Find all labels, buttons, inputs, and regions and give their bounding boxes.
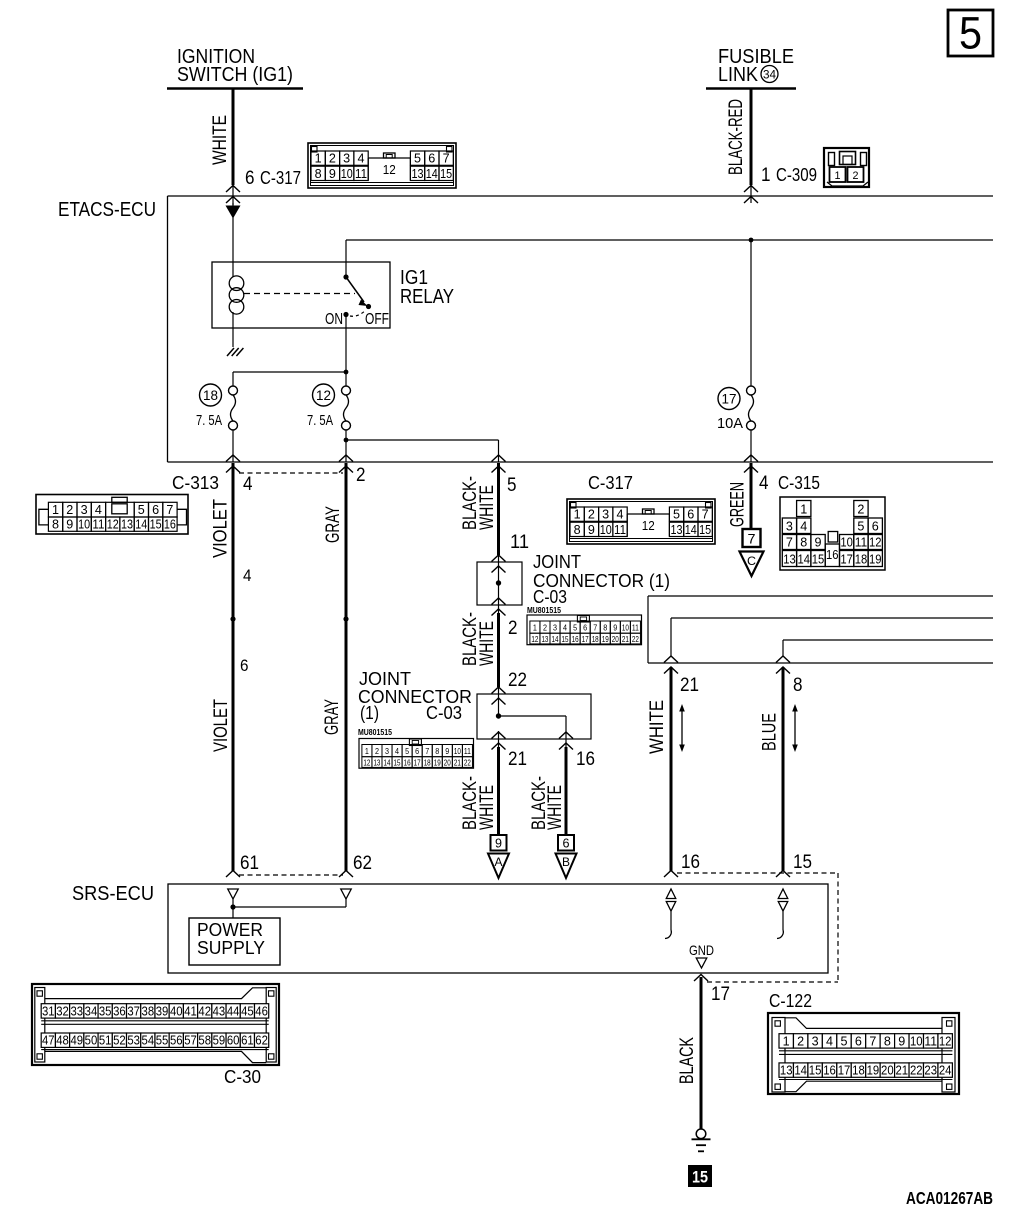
connector table MU801515 2 (359, 739, 474, 769)
joint connector 2 internal link (499, 715, 567, 717)
svg-text:6: 6 (563, 836, 570, 851)
svg-text:ON: ON (325, 311, 343, 328)
svg-text:C-313: C-313 (172, 473, 219, 493)
svg-text:62: 62 (353, 853, 372, 874)
svg-text:35: 35 (99, 1004, 112, 1018)
svg-text:20: 20 (444, 758, 451, 767)
svg-text:4: 4 (563, 624, 567, 633)
svg-text:57: 57 (184, 1034, 197, 1048)
wire BLACK-WHITE middle (497, 613, 500, 687)
svg-text:9: 9 (815, 535, 822, 549)
svg-text:16: 16 (572, 635, 579, 644)
svg-text:C-317: C-317 (260, 168, 301, 188)
svg-text:15: 15 (394, 758, 401, 767)
entry fork 61 (226, 871, 240, 878)
svg-text:21: 21 (896, 1064, 909, 1078)
svg-text:5: 5 (414, 152, 421, 166)
svg-text:4: 4 (358, 152, 365, 166)
svg-text:5: 5 (857, 519, 864, 533)
svg-text:10A: 10A (717, 415, 743, 432)
svg-text:17: 17 (722, 392, 737, 407)
svg-text:3: 3 (385, 747, 389, 756)
svg-text:3: 3 (81, 503, 88, 517)
svg-text:41: 41 (184, 1004, 197, 1018)
svg-text:BLACK: BLACK (677, 1037, 698, 1084)
svg-text:61: 61 (241, 1034, 254, 1048)
svg-text:10: 10 (840, 535, 853, 549)
svg-text:SRS-ECU: SRS-ECU (72, 883, 154, 905)
svg-text:16: 16 (823, 1064, 836, 1078)
SRS dashed connector link 61-62 (239, 874, 343, 876)
splice dot joint connector 1 (496, 580, 501, 585)
svg-text:60: 60 (227, 1034, 240, 1048)
svg-text:WHITE: WHITE (210, 115, 231, 165)
SRS-ECU box (168, 884, 828, 973)
wire ignition inside ETACS (232, 203, 234, 262)
svg-text:38: 38 (142, 1004, 155, 1018)
relay coil (232, 262, 234, 277)
svg-text:16: 16 (164, 518, 176, 532)
relay ON-OFF dashed arc (350, 310, 366, 316)
connector crossing C-317 pin 5 (492, 455, 506, 462)
svg-text:C-03: C-03 (426, 703, 462, 723)
wire BLACK-WHITE to A (497, 747, 500, 834)
svg-text:7: 7 (702, 508, 709, 522)
connector crossing C-315 pin 4 (744, 455, 758, 462)
svg-text:21: 21 (680, 675, 699, 696)
svg-text:POWER: POWER (197, 920, 263, 940)
svg-text:1: 1 (800, 502, 807, 516)
svg-text:8: 8 (52, 518, 59, 532)
svg-text:WHITE: WHITE (647, 700, 668, 754)
svg-text:C-122: C-122 (769, 991, 812, 1011)
svg-text:11: 11 (355, 167, 367, 181)
svg-text:SWITCH (IG1): SWITCH (IG1) (177, 64, 293, 86)
srs pin triangle 61 (228, 889, 239, 899)
svg-text:7: 7 (593, 624, 597, 633)
terminal bar ignition switch (167, 87, 303, 90)
svg-text:48: 48 (56, 1034, 69, 1048)
svg-text:8: 8 (884, 1034, 891, 1048)
splice dot violet (230, 616, 235, 621)
svg-text:1: 1 (315, 152, 322, 166)
svg-text:5: 5 (507, 475, 517, 496)
svg-text:17: 17 (840, 552, 853, 566)
svg-text:5: 5 (405, 747, 409, 756)
svg-text:LINK: LINK (718, 64, 759, 86)
gnd triangle (696, 958, 707, 968)
body ground symbol (696, 1129, 706, 1139)
svg-text:VIOLET: VIOLET (211, 499, 232, 558)
svg-text:MU801515: MU801515 (527, 605, 561, 615)
svg-text:3: 3 (553, 624, 557, 633)
svg-text:3: 3 (812, 1034, 819, 1048)
SRS dashed connector link right (677, 872, 838, 874)
entry fork 62 (339, 871, 353, 878)
svg-text:11: 11 (92, 518, 104, 532)
svg-text:12: 12 (531, 635, 538, 644)
connector table C-122 (768, 1013, 959, 1094)
svg-text:23: 23 (924, 1064, 937, 1078)
svg-text:6: 6 (872, 519, 879, 533)
svg-text:22: 22 (464, 758, 471, 767)
svg-text:OFF: OFF (365, 311, 389, 328)
terminal box 7 (743, 529, 761, 547)
svg-text:21: 21 (454, 758, 461, 767)
svg-text:12: 12 (363, 758, 370, 767)
svg-text:16: 16 (404, 758, 411, 767)
svg-text:3: 3 (602, 508, 609, 522)
svg-text:42: 42 (198, 1004, 211, 1018)
svg-text:19: 19 (602, 635, 609, 644)
svg-text:7: 7 (748, 531, 756, 547)
svg-text:15: 15 (562, 635, 569, 644)
svg-text:13: 13 (671, 523, 683, 537)
svg-text:GRAY: GRAY (322, 699, 343, 735)
svg-text:13: 13 (412, 167, 424, 181)
svg-text:6: 6 (687, 508, 694, 522)
relay dashed actuation line (244, 293, 355, 295)
svg-text:22: 22 (632, 635, 639, 644)
relay common wire (345, 240, 347, 277)
destination triangle C (740, 552, 764, 577)
svg-text:2: 2 (375, 747, 379, 756)
svg-text:34: 34 (763, 68, 776, 82)
svg-text:9: 9 (495, 836, 502, 851)
svg-text:C-309: C-309 (776, 165, 817, 185)
svg-text:7. 5A: 7. 5A (196, 412, 222, 429)
svg-text:8: 8 (435, 747, 439, 756)
svg-text:15: 15 (150, 518, 162, 532)
svg-text:32: 32 (56, 1004, 69, 1018)
svg-text:10: 10 (910, 1034, 923, 1048)
svg-text:19: 19 (867, 1064, 880, 1078)
svg-text:2: 2 (588, 508, 595, 522)
svg-text:ETACS-ECU: ETACS-ECU (58, 199, 156, 221)
svg-text:B: B (562, 855, 570, 869)
svg-text:2: 2 (797, 1034, 804, 1048)
svg-text:15: 15 (809, 1064, 822, 1078)
svg-text:14: 14 (794, 1064, 807, 1078)
svg-text:1: 1 (52, 503, 59, 517)
svg-text:22: 22 (508, 670, 527, 691)
svg-text:7: 7 (869, 1034, 876, 1048)
svg-text:16: 16 (681, 852, 700, 873)
svg-text:19: 19 (434, 758, 441, 767)
svg-text:15: 15 (793, 852, 812, 873)
svg-text:10: 10 (341, 167, 353, 181)
svg-text:10: 10 (78, 518, 90, 532)
svg-text:BLUE: BLUE (760, 713, 781, 751)
svg-text:17: 17 (711, 984, 730, 1005)
dashed connector link C-313 (239, 472, 343, 474)
svg-text:11: 11 (855, 535, 868, 549)
connector table C-317 middle (567, 499, 715, 544)
svg-text:39: 39 (156, 1004, 169, 1018)
entry fork 16 (664, 871, 678, 878)
connector table MU801515 1 (527, 615, 642, 645)
destination triangle B (556, 854, 577, 879)
svg-text:40: 40 (170, 1004, 183, 1018)
svg-text:9: 9 (329, 167, 336, 181)
svg-text:12: 12 (316, 388, 331, 403)
connector table C-315 (780, 497, 885, 570)
svg-text:A: A (495, 855, 503, 869)
svg-text:11: 11 (510, 532, 529, 553)
svg-text:JOINT: JOINT (359, 669, 411, 689)
svg-text:12: 12 (383, 162, 396, 177)
relay box IG1 (212, 262, 390, 328)
svg-text:46: 46 (255, 1004, 268, 1018)
svg-text:BLACK-RED: BLACK-RED (726, 99, 747, 175)
svg-text:16: 16 (576, 749, 595, 770)
destination triangle A (488, 854, 509, 879)
svg-text:12: 12 (869, 535, 882, 549)
svg-text:61: 61 (240, 853, 259, 874)
svg-text:15: 15 (440, 167, 452, 181)
circled 34 (761, 66, 778, 83)
power supply wires (232, 899, 234, 918)
terminal box 6 (558, 835, 574, 851)
svg-text:1: 1 (533, 624, 537, 633)
branch wire to fuse 18 (233, 371, 346, 373)
svg-text:14: 14 (552, 635, 559, 644)
bus wire to WHITE (671, 617, 993, 619)
svg-text:WHITE: WHITE (545, 785, 566, 830)
ETACS box outline (168, 195, 994, 197)
svg-text:1: 1 (783, 1034, 790, 1048)
svg-text:13: 13 (373, 758, 380, 767)
terminal box 9 (491, 835, 507, 851)
svg-text:43: 43 (213, 1004, 226, 1018)
svg-text:5: 5 (673, 508, 680, 522)
svg-text:1: 1 (835, 170, 841, 182)
svg-text:7: 7 (425, 747, 429, 756)
svg-text:44: 44 (227, 1004, 240, 1018)
svg-text:4: 4 (243, 566, 252, 585)
svg-text:22: 22 (910, 1064, 923, 1078)
svg-text:2: 2 (329, 152, 336, 166)
svg-text:8: 8 (315, 167, 322, 181)
double arrow white (681, 710, 683, 746)
svg-text:10: 10 (454, 747, 461, 756)
svg-text:10: 10 (600, 523, 612, 537)
srs pin triangle 62 (341, 889, 352, 899)
svg-text:52: 52 (113, 1034, 126, 1048)
svg-text:15: 15 (812, 552, 825, 566)
svg-text:4: 4 (95, 503, 102, 517)
svg-text:11: 11 (924, 1034, 937, 1048)
svg-text:9: 9 (613, 624, 617, 633)
svg-text:MU801515: MU801515 (358, 727, 392, 737)
svg-text:C-03: C-03 (533, 587, 567, 607)
svg-text:WHITE: WHITE (477, 621, 498, 666)
page number box 5 (948, 10, 993, 56)
relay coil ground (227, 348, 234, 356)
svg-text:49: 49 (70, 1034, 83, 1048)
svg-text:2: 2 (508, 618, 518, 639)
svg-text:62: 62 (255, 1034, 268, 1048)
svg-text:2: 2 (853, 170, 859, 182)
svg-text:18: 18 (855, 552, 868, 566)
joint connector C-03 box 2 (477, 694, 591, 739)
svg-text:14: 14 (798, 552, 811, 566)
bus wire upper loop (648, 595, 993, 597)
svg-text:3: 3 (343, 152, 350, 166)
svg-text:9: 9 (445, 747, 449, 756)
bus wire lower (648, 662, 993, 664)
svg-text:2: 2 (66, 503, 73, 517)
svg-text:GREEN: GREEN (728, 482, 749, 527)
svg-text:17: 17 (838, 1064, 851, 1078)
svg-text:14: 14 (685, 523, 697, 537)
wire BLACK to ground (700, 977, 703, 1129)
svg-text:16: 16 (826, 548, 839, 562)
terminal bar fusible link (706, 87, 796, 90)
svg-text:RELAY: RELAY (400, 286, 454, 308)
svg-text:47: 47 (42, 1034, 55, 1048)
svg-text:53: 53 (127, 1034, 140, 1048)
connector table C-313 (36, 495, 188, 535)
svg-text:10: 10 (622, 624, 629, 633)
wire BLACK-WHITE to B (565, 747, 568, 834)
svg-text:54: 54 (142, 1034, 155, 1048)
svg-text:21: 21 (508, 749, 527, 770)
svg-text:18: 18 (852, 1064, 865, 1078)
ETACS internal feed line (346, 239, 993, 241)
crossing blue bus (776, 656, 790, 663)
diode D1 (226, 206, 241, 219)
connector crossing 6 C-317 (232, 185, 234, 205)
svg-text:34: 34 (85, 1004, 98, 1018)
svg-text:24: 24 (939, 1064, 952, 1078)
svg-text:7: 7 (166, 503, 173, 517)
wire from C-309 to fuse 17 (750, 240, 752, 386)
svg-text:55: 55 (156, 1034, 169, 1048)
POWER SUPPLY box (189, 918, 280, 965)
svg-text:45: 45 (241, 1004, 254, 1018)
svg-text:6: 6 (245, 168, 255, 189)
svg-text:WHITE: WHITE (477, 485, 498, 530)
svg-text:14: 14 (426, 167, 438, 181)
svg-text:51: 51 (99, 1034, 112, 1048)
svg-text:1: 1 (365, 747, 369, 756)
wire WHITE from ignition switch (232, 88, 235, 185)
svg-text:18: 18 (424, 758, 431, 767)
svg-text:15: 15 (692, 1168, 708, 1187)
svg-text:8: 8 (603, 624, 607, 633)
svg-text:4: 4 (800, 519, 807, 533)
svg-text:13: 13 (783, 552, 796, 566)
svg-text:ACA01267AB: ACA01267AB (906, 1188, 993, 1208)
svg-text:1: 1 (574, 508, 581, 522)
connector table C-30 (32, 984, 279, 1065)
svg-text:50: 50 (85, 1034, 98, 1048)
svg-text:12: 12 (939, 1034, 952, 1048)
svg-text:7: 7 (786, 535, 793, 549)
joint connector C-03 box 1 (477, 562, 522, 605)
wire WHITE pin21 (670, 667, 673, 871)
svg-text:6: 6 (152, 503, 159, 517)
connector crossing C-313 pin 4 (226, 455, 240, 462)
svg-text:59: 59 (213, 1034, 226, 1048)
svg-text:8: 8 (793, 675, 803, 696)
svg-text:17: 17 (582, 635, 589, 644)
svg-text:6: 6 (855, 1034, 862, 1048)
svg-text:8: 8 (574, 523, 581, 537)
svg-text:13: 13 (541, 635, 548, 644)
svg-text:6: 6 (583, 624, 587, 633)
svg-text:11: 11 (632, 624, 639, 633)
connector crossing C-313 pin 2 (339, 455, 353, 462)
svg-text:9: 9 (588, 523, 595, 537)
junction dot relay output branch (344, 370, 349, 375)
svg-text:1: 1 (761, 165, 771, 186)
junction dot at C-309 feed (749, 238, 754, 243)
svg-text:2: 2 (857, 502, 864, 516)
svg-text:WHITE: WHITE (477, 785, 498, 830)
svg-text:14: 14 (384, 758, 391, 767)
svg-text:4: 4 (617, 508, 624, 522)
relay ON contact (343, 312, 348, 317)
svg-text:20: 20 (881, 1064, 894, 1078)
crossing white bus (664, 656, 678, 663)
svg-text:11: 11 (614, 523, 626, 537)
svg-text:6: 6 (415, 747, 419, 756)
svg-text:20: 20 (612, 635, 619, 644)
svg-text:11: 11 (464, 747, 471, 756)
svg-text:2: 2 (543, 624, 547, 633)
svg-text:9: 9 (66, 518, 73, 532)
svg-text:19: 19 (869, 552, 882, 566)
svg-text:31: 31 (42, 1004, 55, 1018)
svg-text:9: 9 (898, 1034, 905, 1048)
fuse 18 7.5A (229, 386, 238, 395)
svg-text:2: 2 (356, 465, 366, 486)
svg-text:18: 18 (203, 388, 218, 403)
connector table C-317 top (308, 143, 456, 188)
svg-text:JOINT: JOINT (533, 552, 581, 572)
svg-text:37: 37 (127, 1004, 140, 1018)
svg-text:C-317: C-317 (588, 473, 633, 493)
svg-text:5: 5 (959, 8, 982, 59)
svg-text:36: 36 (113, 1004, 126, 1018)
svg-text:15: 15 (699, 523, 711, 537)
svg-text:SUPPLY: SUPPLY (197, 938, 265, 958)
splice dot joint connector 2 (496, 713, 501, 718)
connector crossing 1 C-309 (750, 185, 752, 203)
svg-text:7: 7 (443, 152, 450, 166)
svg-text:5: 5 (573, 624, 577, 633)
branch wire to pin 5 (346, 439, 499, 441)
bus wire to BLUE (783, 639, 993, 641)
fuse 17 10A (747, 386, 756, 395)
svg-text:12: 12 (107, 518, 119, 532)
exit fork 17 (694, 975, 708, 982)
svg-text:(1): (1) (360, 703, 379, 723)
svg-text:C-30: C-30 (224, 1067, 261, 1087)
svg-text:14: 14 (135, 518, 147, 532)
wire BLACK-WHITE pin5 upper (497, 463, 500, 555)
svg-text:4: 4 (759, 473, 769, 494)
entry fork 15 (776, 871, 790, 878)
svg-text:13: 13 (780, 1064, 793, 1078)
svg-text:5: 5 (841, 1034, 848, 1048)
splice dot gray (343, 616, 348, 621)
srs input symbol 16 (666, 889, 676, 899)
double arrow blue (794, 710, 796, 746)
wire VIOLET pin4 (232, 463, 235, 871)
